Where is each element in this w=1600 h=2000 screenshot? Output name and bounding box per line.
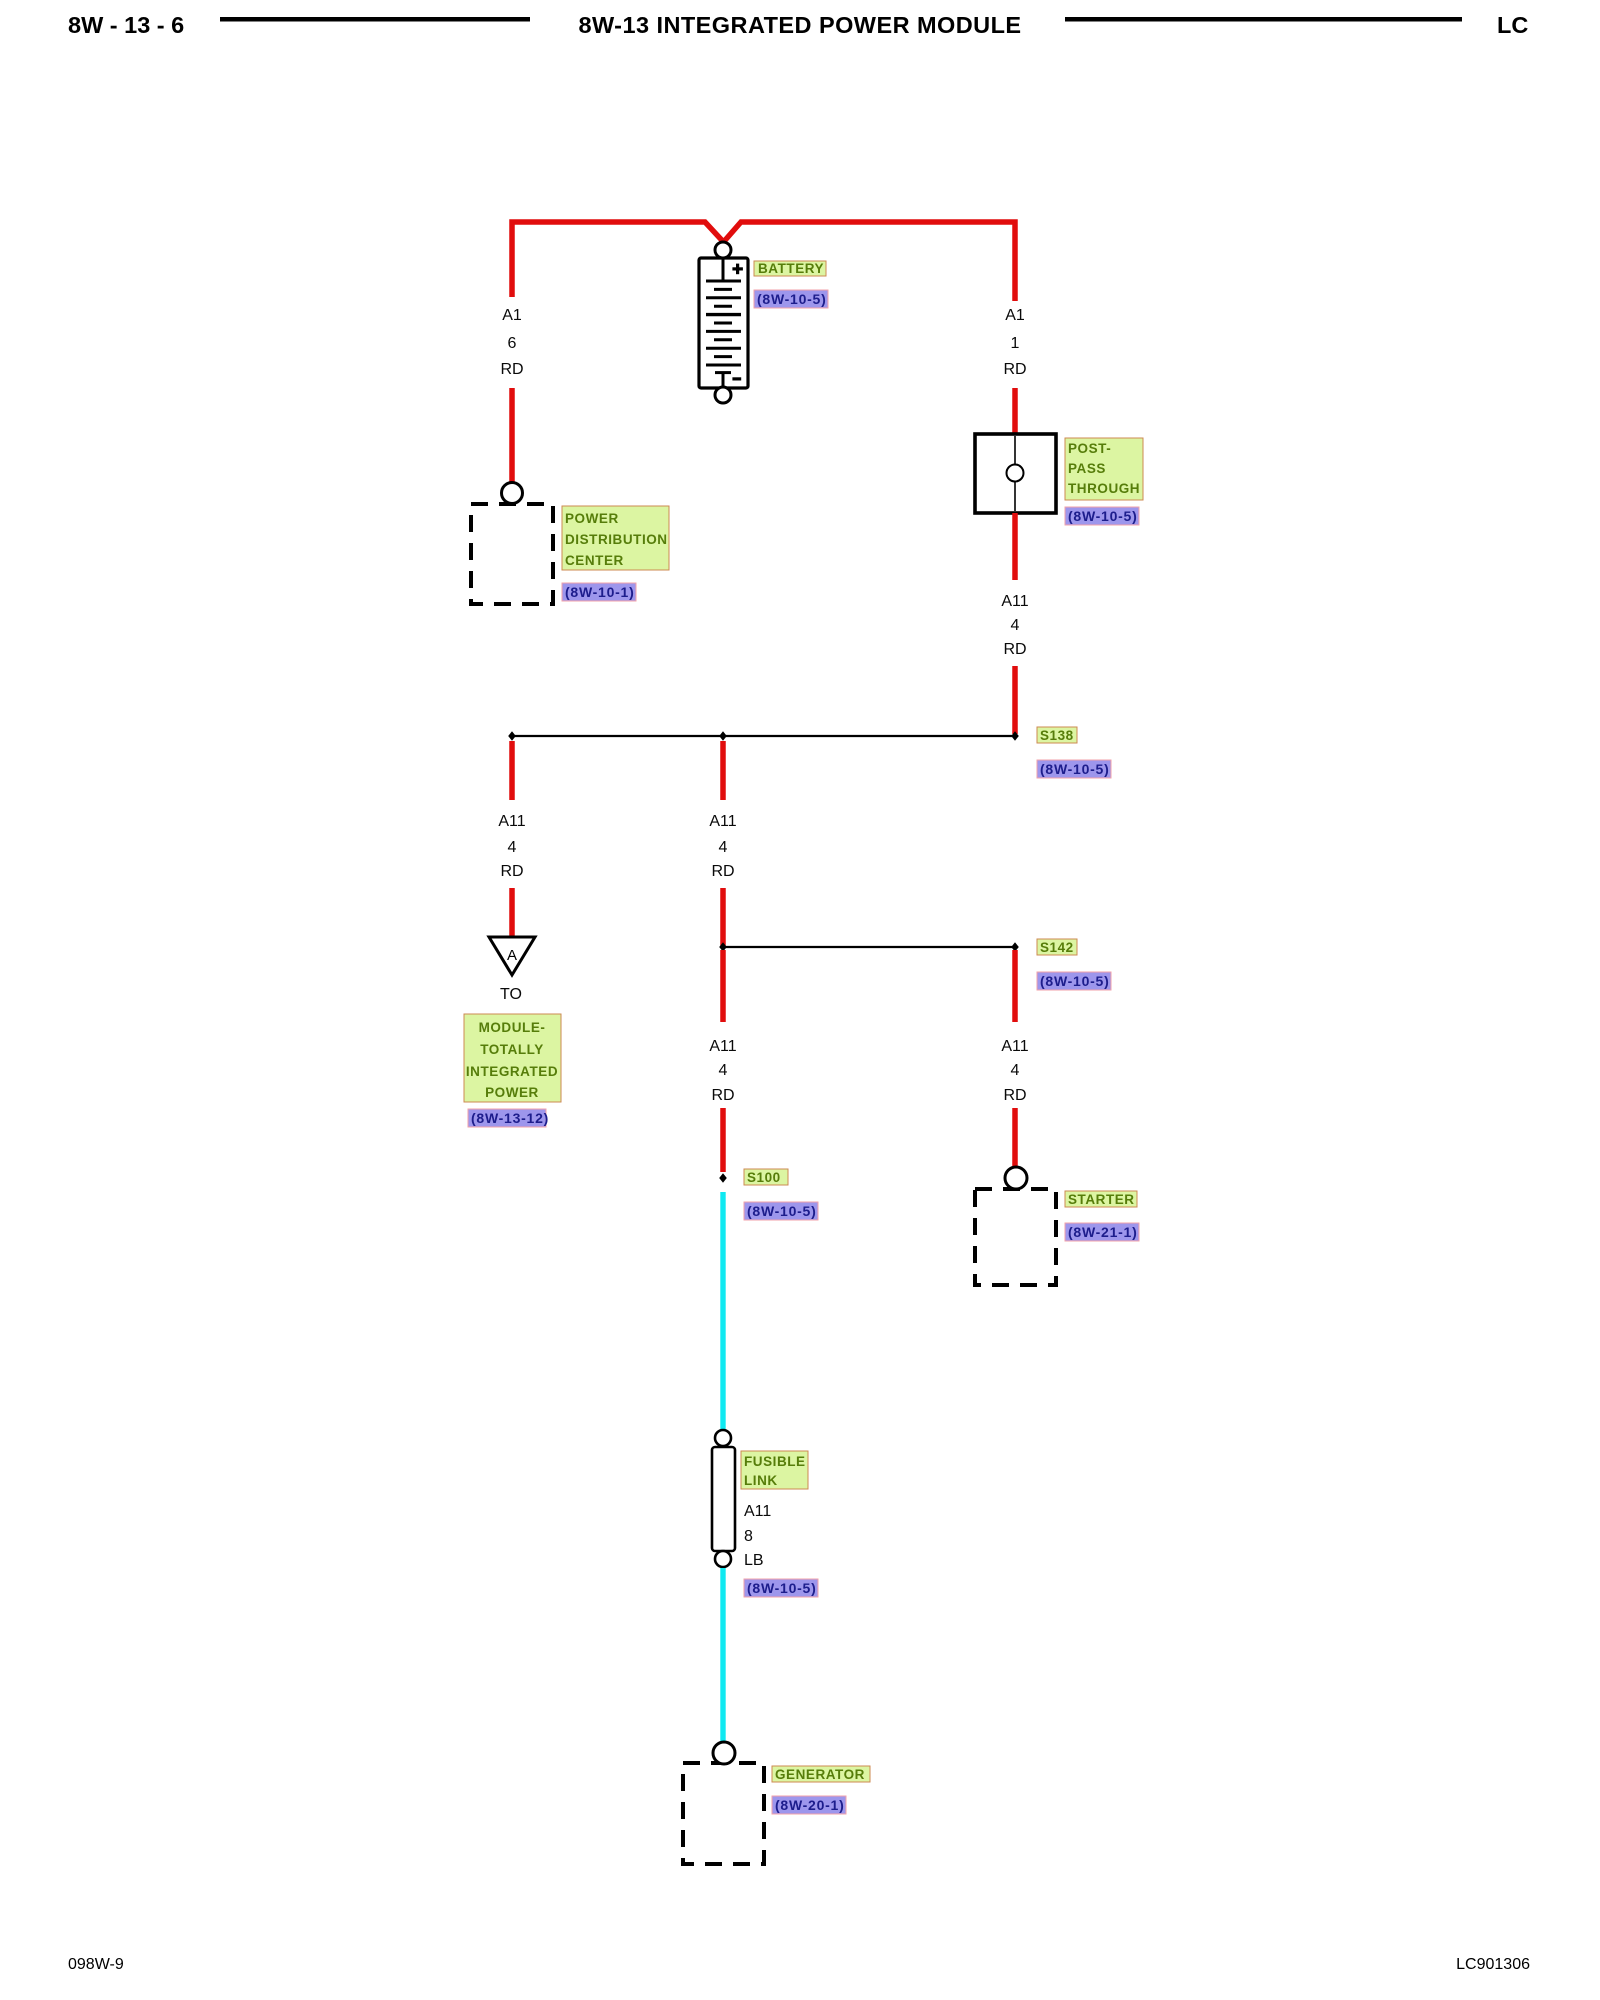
generator connector circle	[713, 1742, 735, 1764]
header page number 8W - 13 - 6	[68, 12, 184, 38]
svg-text:POWER: POWER	[565, 511, 619, 526]
label TO	[500, 986, 522, 1003]
label (8W-10-5) S100	[744, 1202, 818, 1220]
svg-text:8W - 13 - 6: 8W - 13 - 6	[68, 12, 184, 38]
junction dot S138 middle	[719, 731, 727, 741]
svg-text:POST-: POST-	[1068, 441, 1111, 456]
svg-text:A11: A11	[709, 813, 736, 830]
label A11 4 RD right lower	[1001, 1038, 1028, 1104]
wire A11 4 RD below S142 right	[1012, 950, 1018, 1022]
battery B- terminal circle	[715, 387, 731, 403]
junction dot S142 right	[1011, 942, 1019, 952]
svg-text:(8W-10-1): (8W-10-1)	[565, 584, 634, 600]
svg-text:098W-9: 098W-9	[68, 1956, 124, 1973]
wire A11 4 RD to TIPM triangle	[509, 888, 515, 940]
label (8W-21-1)	[1065, 1223, 1139, 1241]
svg-text:6: 6	[508, 335, 517, 352]
svg-text:FUSIBLE: FUSIBLE	[744, 1454, 806, 1469]
svg-text:(8W-10-5): (8W-10-5)	[1040, 973, 1109, 989]
header LC	[1497, 12, 1528, 38]
label (8W-10-5) post-pass	[1065, 507, 1139, 525]
fusible link top terminal circle	[715, 1430, 731, 1446]
label A11 4 RD middle lower	[709, 1038, 736, 1104]
label FUSIBLE LINK	[741, 1451, 808, 1489]
label POST- PASS THROUGH	[1065, 438, 1143, 500]
battery body	[699, 258, 748, 388]
svg-text:S142: S142	[1040, 940, 1074, 955]
svg-text:4: 4	[508, 839, 517, 856]
svg-text:RD: RD	[711, 863, 734, 880]
svg-text:CENTER: CENTER	[565, 553, 624, 568]
junction dot S138 left	[508, 731, 516, 741]
svg-text:RD: RD	[1003, 1087, 1026, 1104]
header rule left	[220, 17, 530, 22]
svg-text:4: 4	[1011, 617, 1020, 634]
svg-text:INTEGRATED: INTEGRATED	[466, 1064, 558, 1079]
wire A11 8 LB lower cyan segment to generator	[720, 1568, 725, 1742]
PDC connector circle	[502, 483, 523, 504]
svg-text:A: A	[507, 947, 517, 964]
svg-text:LB: LB	[744, 1552, 764, 1569]
label A11 4 RD right upper	[1001, 593, 1028, 658]
label STARTER	[1065, 1191, 1137, 1207]
fusible link body	[712, 1447, 735, 1551]
header rule right	[1065, 17, 1462, 22]
svg-text:RD: RD	[711, 1087, 734, 1104]
svg-text:(8W-10-5): (8W-10-5)	[747, 1203, 816, 1219]
label S138	[1037, 727, 1077, 743]
label (8W-10-5) battery	[754, 290, 828, 308]
svg-text:RD: RD	[500, 863, 523, 880]
starter connector circle	[1005, 1167, 1027, 1189]
wire A11 4 RD to splice S138	[1012, 666, 1018, 734]
label (8W-20-1)	[772, 1796, 846, 1814]
battery minus sign	[732, 377, 741, 380]
svg-text:(8W-21-1): (8W-21-1)	[1068, 1224, 1137, 1240]
starter dashed box	[975, 1189, 1056, 1285]
splice S142 bus line	[723, 946, 1015, 948]
power distribution center dashed box	[471, 504, 553, 604]
svg-text:A1: A1	[1005, 307, 1025, 324]
label (8W-10-1)	[562, 583, 636, 601]
footer code	[1456, 1956, 1530, 1973]
label A11 4 RD middle branch	[709, 813, 736, 880]
svg-text:A11: A11	[1001, 1038, 1028, 1055]
label (8W-13-12)	[468, 1109, 549, 1127]
junction dot S138 right	[1011, 731, 1019, 741]
svg-text:DISTRIBUTION: DISTRIBUTION	[565, 532, 668, 547]
label BATTERY	[754, 261, 826, 276]
svg-text:LINK: LINK	[744, 1473, 778, 1488]
wire A1 6 RD lower segment to PDC	[509, 388, 515, 482]
svg-text:THROUGH: THROUGH	[1068, 481, 1140, 496]
svg-text:A11: A11	[709, 1038, 736, 1055]
svg-text:RD: RD	[1003, 361, 1026, 378]
label A1 1 RD right	[1003, 307, 1026, 378]
svg-text:RD: RD	[1003, 641, 1026, 658]
label MODULE- TOTALLY INTEGRATED POWER	[464, 1014, 561, 1102]
label (8W-10-5) S142	[1037, 972, 1111, 990]
svg-text:(8W-10-5): (8W-10-5)	[757, 291, 826, 307]
svg-text:(8W-10-5): (8W-10-5)	[1068, 508, 1137, 524]
svg-text:LC: LC	[1497, 12, 1528, 38]
svg-text:1: 1	[1011, 335, 1020, 352]
splice S138 bus line	[512, 735, 1015, 737]
wire A1 1 RD lower segment to post-pass through	[1012, 388, 1018, 436]
svg-text:S100: S100	[747, 1170, 781, 1185]
label (8W-10-5) S138	[1037, 760, 1111, 778]
footer sheet number	[68, 1956, 124, 1973]
svg-text:MODULE-: MODULE-	[479, 1020, 546, 1035]
wire A11 4 RD stub below S138 middle	[720, 741, 726, 800]
wire A11 4 RD below S142 middle	[720, 950, 726, 1022]
svg-text:TO: TO	[500, 986, 522, 1003]
svg-text:(8W-10-5): (8W-10-5)	[747, 1580, 816, 1596]
battery plus sign	[732, 264, 743, 275]
svg-text:TOTALLY: TOTALLY	[480, 1042, 544, 1057]
svg-text:(8W-10-5): (8W-10-5)	[1040, 761, 1109, 777]
label A1 6 RD left	[500, 307, 523, 378]
label (8W-10-5) fusible link	[744, 1579, 818, 1597]
svg-text:(8W-20-1): (8W-20-1)	[775, 1797, 844, 1813]
wire A11 4 RD below post-pass	[1012, 513, 1018, 580]
svg-text:A11: A11	[1001, 593, 1028, 610]
svg-text:8: 8	[744, 1528, 753, 1545]
off-page connector triangle A	[489, 937, 535, 975]
wire A11 8 LB upper cyan segment	[720, 1192, 725, 1431]
svg-text:S138: S138	[1040, 728, 1074, 743]
svg-text:PASS: PASS	[1068, 461, 1106, 476]
junction dot S100	[719, 1173, 727, 1183]
junction dot S142 left	[719, 942, 727, 952]
svg-text:A11: A11	[498, 813, 525, 830]
svg-text:RD: RD	[500, 361, 523, 378]
wire A1 RD battery feed: left vertical + top horizontal with V dip + right vertical	[512, 222, 1015, 301]
svg-text:A1: A1	[502, 307, 522, 324]
wire A11 4 RD to starter	[1012, 1108, 1018, 1168]
wire A11 4 RD to splice S100	[720, 1108, 726, 1172]
svg-text:4: 4	[719, 839, 728, 856]
svg-text:4: 4	[719, 1062, 728, 1079]
wire A11 4 RD to splice S142	[720, 888, 726, 947]
header title	[579, 12, 1022, 38]
svg-text:LC901306: LC901306	[1456, 1956, 1530, 1973]
svg-text:(8W-13-12): (8W-13-12)	[471, 1110, 549, 1126]
svg-text:4: 4	[1011, 1062, 1020, 1079]
wire A11 4 RD stub below S138 left	[509, 741, 515, 800]
svg-text:8W-13 INTEGRATED POWER MODULE: 8W-13 INTEGRATED POWER MODULE	[579, 12, 1022, 38]
label POWER DISTRIBUTION CENTER	[562, 506, 669, 570]
svg-text:STARTER: STARTER	[1068, 1192, 1135, 1207]
label A11 8 LB fuse wire gauge	[744, 1503, 771, 1569]
fusible link bottom terminal circle	[715, 1551, 731, 1567]
svg-text:A11: A11	[744, 1503, 771, 1520]
label GENERATOR	[772, 1766, 870, 1782]
label A11 4 RD left branch	[498, 813, 525, 880]
post-pass through box	[975, 434, 1056, 513]
generator dashed box	[683, 1763, 764, 1864]
svg-text:POWER: POWER	[485, 1085, 539, 1100]
label S100	[744, 1169, 788, 1185]
svg-text:GENERATOR: GENERATOR	[775, 1767, 865, 1782]
battery B+ terminal circle	[715, 242, 731, 258]
label S142	[1037, 939, 1077, 955]
svg-text:BATTERY: BATTERY	[758, 261, 824, 276]
